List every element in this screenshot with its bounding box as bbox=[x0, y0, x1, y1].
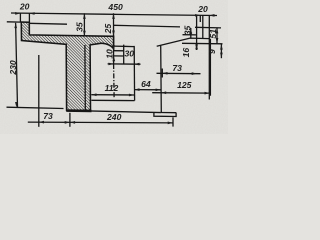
top edge (visible behind) bbox=[29, 22, 67, 25]
230 dim line bbox=[16, 23, 18, 108]
230 bottom ext bbox=[7, 107, 64, 108]
long bottom line to right foot bbox=[67, 110, 161, 112]
top edge middle segment bbox=[114, 25, 180, 27]
ext line 240 right bbox=[172, 117, 174, 126]
ext line left20 b bbox=[28, 13, 30, 22]
ext line right20 tie bbox=[199, 15, 201, 22]
73 right dim line bbox=[157, 72, 201, 74]
16 dim vertical bbox=[202, 15, 204, 38]
slot lines at centre bbox=[114, 50, 124, 52]
web inner extra line bbox=[84, 45, 86, 111]
35 left dim vertical bbox=[83, 13, 85, 36]
ext line 73/240 shared bbox=[69, 113, 71, 127]
ext line 73 left bbox=[38, 55, 40, 127]
arrowheads bbox=[14, 12, 222, 124]
112 dim line bbox=[91, 94, 134, 96]
step edge vertical x134 bbox=[133, 46, 135, 101]
35 right dim vertical bbox=[190, 28, 192, 38]
top edge right segment bbox=[195, 26, 221, 29]
30 dim line bbox=[108, 63, 141, 65]
9 dim vertical bbox=[220, 44, 222, 58]
51 dim vertical bbox=[216, 28, 218, 44]
230 top ext bbox=[7, 21, 21, 23]
thick bottom of web bbox=[66, 109, 91, 112]
centreline dash-dot bbox=[113, 64, 116, 98]
right body foot bbox=[154, 112, 176, 116]
step bottom bbox=[91, 99, 134, 101]
ledge line right of centre bbox=[114, 45, 135, 48]
ext line right20 b bbox=[208, 15, 210, 99]
mystery step line right bbox=[182, 42, 223, 45]
ext line left20 a bbox=[19, 13, 21, 22]
foot top line bbox=[161, 112, 176, 114]
125 dim line bbox=[152, 92, 210, 94]
engineering cross-section drawing bbox=[0, 0, 228, 134]
slot right edge bbox=[123, 45, 125, 64]
64 dim line bbox=[134, 89, 161, 91]
73 right left ext bbox=[161, 69, 163, 78]
bottom chain 73 + 240 bbox=[28, 121, 173, 124]
main hatched section outline bbox=[21, 22, 113, 111]
right body outline bbox=[157, 38, 211, 112]
ext line right20 a bbox=[196, 15, 198, 50]
top dimension line 20 / 450 / 20 bbox=[11, 13, 104, 14]
25/10 centre vertical + centreline bbox=[113, 13, 115, 64]
tick under 35 right label bbox=[183, 34, 197, 36]
